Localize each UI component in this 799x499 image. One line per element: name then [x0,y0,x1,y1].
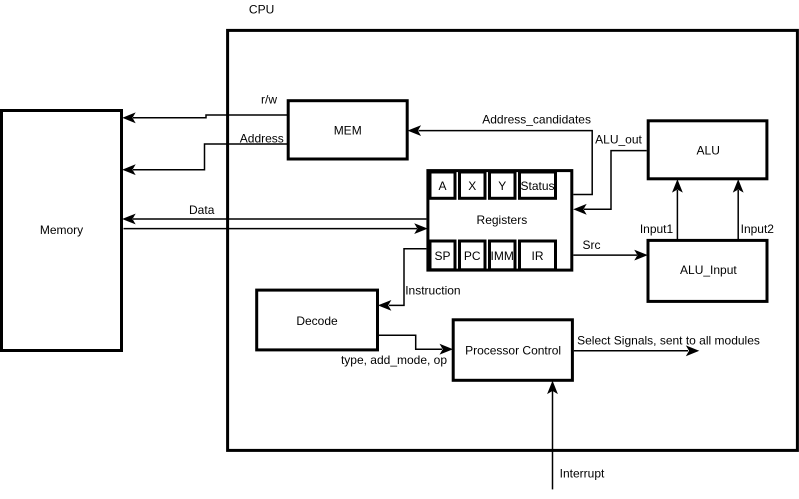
register cell IMM [490,241,516,270]
register cell SP [430,241,455,270]
wire Select Signals (Processor Control output) [574,346,698,355]
wire Address_candidates (Registers to MEM) [409,126,592,194]
svg-text:Status: Status [520,179,554,193]
wire type, add_mode, op (Decode to Processor Control) [379,335,452,353]
label Data [189,203,215,217]
svg-text:A: A [438,179,446,193]
wire ALU_out (ALU to Registers) [575,151,647,214]
register cell X [460,172,486,198]
wire Input1 (ALU_Input to ALU) [673,181,682,240]
register cell IR [520,241,556,270]
svg-text:Src: Src [583,238,601,252]
label Input1 [640,222,674,236]
svg-text:IMM: IMM [491,249,514,263]
label Interrupt [560,467,605,481]
svg-text:Y: Y [498,179,506,193]
svg-text:Processor Control: Processor Control [465,343,561,357]
label Address [240,132,284,146]
svg-text:PC: PC [464,249,481,263]
svg-text:Decode: Decode [296,314,338,328]
label CPU [249,3,274,17]
ALU_Input box [648,240,767,301]
register cell Status [520,172,556,198]
label Src [583,238,601,252]
label Address_candidates [482,112,591,126]
ALU box [648,121,767,179]
svg-text:Memory: Memory [40,223,83,237]
svg-text:CPU: CPU [249,3,274,17]
svg-text:Input1: Input1 [640,222,674,236]
svg-text:SP: SP [434,249,450,263]
svg-text:r/w: r/w [261,93,277,107]
register cell Y [490,172,516,198]
svg-text:ALU_out: ALU_out [595,133,642,147]
register cell PC [460,241,486,270]
svg-text:Interrupt: Interrupt [560,467,605,481]
label Instruction [405,284,460,298]
svg-text:ALU_Input: ALU_Input [680,263,737,277]
label Input2 [741,222,775,236]
register cell A [430,172,455,198]
svg-text:Select Signals, sent to all mo: Select Signals, sent to all modules [577,333,760,347]
wire Data out (Registers to Memory) [124,215,427,224]
Decode box [257,290,378,350]
Processor Control box [453,320,572,381]
Memory box [2,111,122,351]
label ALU_out [595,133,642,147]
wire Address from MEM to Memory [124,144,288,174]
wire Data in (Memory to Registers) [124,224,427,233]
Registers container box [428,171,572,271]
CPU container box [228,30,798,450]
svg-text:Instruction: Instruction [405,284,460,298]
svg-text:type, add_mode, op: type, add_mode, op [341,353,447,367]
svg-text:Input2: Input2 [741,222,775,236]
label type, add_mode, op [341,353,447,367]
svg-text:Address_candidates: Address_candidates [482,112,591,126]
svg-text:Address: Address [240,132,284,146]
svg-text:Data: Data [189,203,215,217]
wire r/w from MEM to Memory [124,113,288,122]
wire Instruction (Registers to Decode) [379,249,426,310]
svg-text:X: X [468,179,476,193]
wire Interrupt (into Processor Control) [548,382,557,490]
wire Input2 (ALU_Input to ALU) [734,181,743,240]
svg-text:ALU: ALU [697,143,720,157]
MEM box [288,101,407,159]
wire Src (Registers to ALU_Input) [573,251,646,260]
label Select Signals, sent to all modules [577,333,760,347]
svg-text:IR: IR [532,249,544,263]
label r/w [261,93,277,107]
svg-text:Registers: Registers [477,213,528,227]
svg-text:MEM: MEM [334,123,362,137]
